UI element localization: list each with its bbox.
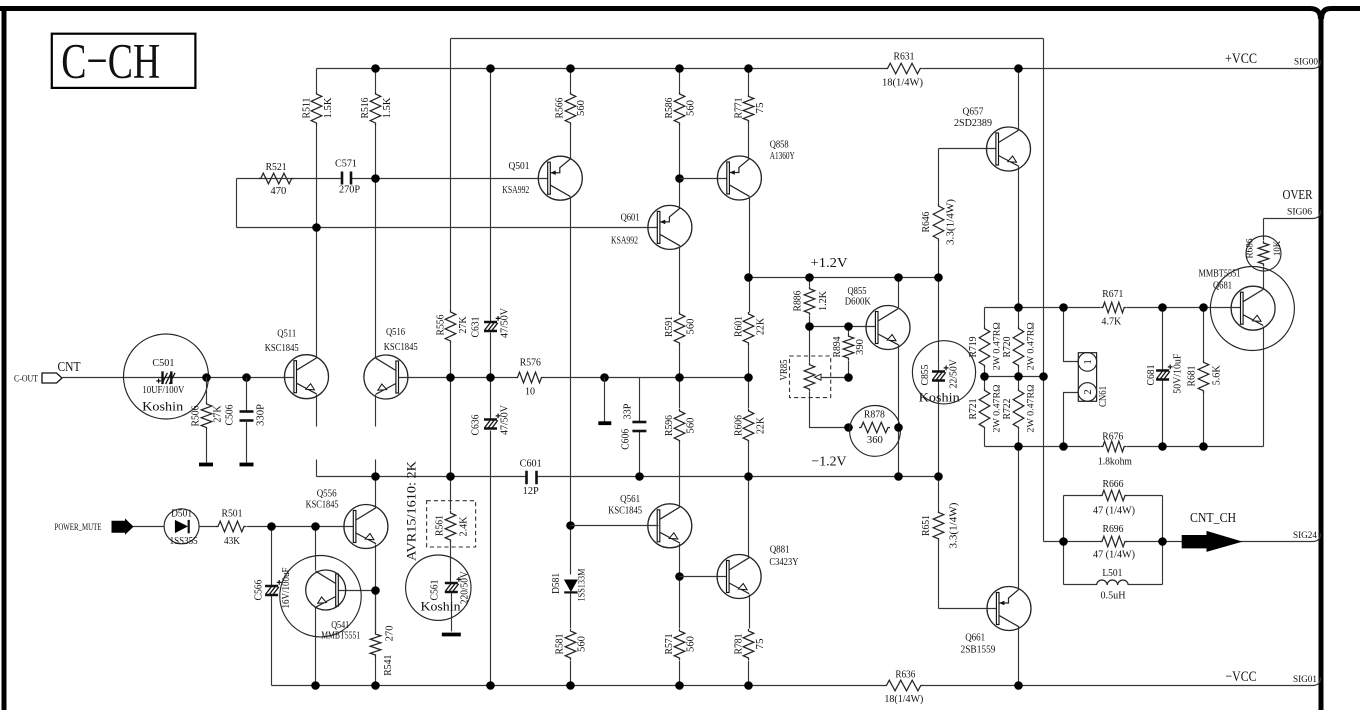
svg-text:R566: R566 bbox=[554, 98, 565, 119]
resistor R722 2W 0.47R bbox=[1013, 388, 1024, 429]
transistor Q516 KSC1845 (mirrored) bbox=[364, 355, 408, 399]
svg-text:C3423Y: C3423Y bbox=[769, 557, 798, 568]
svg-text:220/50V: 220/50V bbox=[460, 570, 471, 604]
svg-text:R596: R596 bbox=[664, 415, 675, 436]
svg-text:47 (1/4W): 47 (1/4W) bbox=[1093, 550, 1135, 561]
capacitor C636 47/50V bbox=[484, 418, 497, 421]
node: input/C506 junction bbox=[242, 373, 251, 382]
wire: VR85 to R878 wire bbox=[810, 392, 849, 428]
resistor R566 560 bbox=[565, 92, 576, 125]
connector arrow CNT_CH bbox=[1182, 532, 1241, 552]
resistor R571 560 bbox=[674, 629, 685, 660]
resistor R646 3.3(1/4W) bbox=[933, 204, 944, 241]
svg-text:1.5K: 1.5K bbox=[382, 97, 393, 119]
svg-text:10K: 10K bbox=[1273, 241, 1283, 256]
wire: Q661 base wire bbox=[939, 608, 999, 610]
svg-text:Q858: Q858 bbox=[770, 140, 789, 151]
diode D501 1SS355 (in circle) bbox=[164, 509, 199, 544]
svg-text:SIG06: SIG06 bbox=[1287, 208, 1312, 218]
node: -1.2V rail / R651 bbox=[934, 472, 943, 481]
svg-text:R671: R671 bbox=[1102, 289, 1123, 300]
svg-text:R722: R722 bbox=[1002, 399, 1013, 420]
svg-text:R681: R681 bbox=[1187, 366, 1198, 387]
svg-text:560: 560 bbox=[685, 100, 696, 116]
svg-text:CN61: CN61 bbox=[1098, 386, 1109, 407]
resistor R686 10K (in circle) bbox=[1246, 236, 1281, 271]
node: network right bbox=[1158, 537, 1167, 546]
wire: +VCC rail bbox=[317, 61, 1321, 69]
svg-text:2.4K: 2.4K bbox=[459, 516, 470, 537]
svg-text:27K: 27K bbox=[458, 316, 469, 334]
capacitor C606 33P bbox=[632, 421, 646, 424]
resistor R606 22K bbox=[743, 409, 754, 443]
svg-text:18(1/4W): 18(1/4W) bbox=[882, 78, 923, 89]
svg-text:270: 270 bbox=[385, 625, 396, 641]
svg-text:22/50V: 22/50V bbox=[948, 359, 959, 389]
svg-text:2: 2 bbox=[1082, 389, 1094, 395]
svg-text:1.8kohm: 1.8kohm bbox=[1098, 457, 1132, 468]
wire: CNT_CH output wire bbox=[1044, 541, 1064, 543]
wire: R521/C571 wire to Q501 base bbox=[237, 178, 549, 180]
wire: -VCC rail bbox=[272, 678, 1321, 686]
node: -1.2V rail / Q516-R536 column bbox=[371, 472, 380, 481]
wire: Q881 base wire bbox=[680, 576, 729, 578]
svg-text:3.3(1/4W): 3.3(1/4W) bbox=[949, 503, 960, 549]
svg-text:R586: R586 bbox=[664, 98, 675, 119]
node: R516/C571 junction bbox=[371, 174, 380, 183]
node: lower wire / CN61 pin2 branch bbox=[1059, 442, 1068, 451]
node: -1.2V rail / R606-Q881 bbox=[744, 472, 753, 481]
svg-text:+1.2V: +1.2V bbox=[811, 256, 848, 271]
wire: Q855 collector/emitter column bbox=[898, 278, 900, 477]
capacitor C601 12P bbox=[525, 471, 528, 485]
svg-text:R506: R506 bbox=[190, 406, 201, 427]
svg-text:27K: 27K bbox=[212, 405, 223, 423]
transistor Q661 2SB1559 bbox=[987, 587, 1031, 631]
svg-text:POWER_MUTE: POWER_MUTE bbox=[55, 523, 102, 533]
svg-text:Q556: Q556 bbox=[317, 489, 337, 500]
svg-text:A1360Y: A1360Y bbox=[770, 151, 795, 162]
wire: network right bracket bbox=[1162, 496, 1164, 585]
svg-text:390: 390 bbox=[855, 339, 866, 355]
resistor R596 560 bbox=[674, 409, 685, 443]
svg-text:R646: R646 bbox=[921, 212, 932, 233]
ground (C561) bbox=[442, 633, 461, 637]
svg-text:C501: C501 bbox=[152, 358, 174, 369]
svg-text:Koshin: Koshin bbox=[421, 600, 462, 614]
svg-text:R576: R576 bbox=[520, 357, 541, 368]
node: R671 / C681 bbox=[1158, 303, 1167, 312]
svg-text:33P: 33P bbox=[622, 403, 633, 419]
wire: Q541 base wire bbox=[336, 590, 376, 592]
resistor R666 47 (1/4W) bbox=[1064, 495, 1163, 497]
svg-text:0.5uH: 0.5uH bbox=[1101, 591, 1126, 602]
resistor R601 22K bbox=[743, 312, 754, 345]
svg-text:R571: R571 bbox=[664, 634, 675, 655]
svg-text:+VCC: +VCC bbox=[1225, 51, 1257, 67]
svg-text:R501: R501 bbox=[222, 509, 243, 520]
node: main wire / R601-R606 bbox=[744, 373, 753, 382]
svg-text:R886: R886 bbox=[792, 291, 803, 312]
node: R671 wire / CN61 pin1 branch bbox=[1059, 303, 1068, 312]
resistor R676 1.8kohm bbox=[1101, 441, 1126, 452]
transistor Q881 C3423Y bbox=[717, 555, 761, 599]
node: -VCC rail / Q541 emitter bbox=[311, 681, 320, 690]
svg-text:R719: R719 bbox=[968, 337, 979, 358]
wire: C681 column bbox=[1162, 308, 1164, 447]
svg-text:−1.2V: −1.2V bbox=[812, 455, 847, 470]
capacitor C571 270P bbox=[341, 172, 344, 185]
wire: -1.2V rail with C601 bbox=[317, 476, 939, 478]
resistor R501 43K bbox=[216, 521, 246, 532]
connector C-OUT bbox=[42, 373, 62, 383]
svg-text:75: 75 bbox=[755, 639, 766, 650]
connector CN61 bbox=[1078, 353, 1096, 402]
transistor Q601 KSA992 bbox=[648, 205, 692, 249]
wire: VR85 wiper wire bbox=[821, 377, 849, 379]
svg-text:R516: R516 bbox=[360, 98, 371, 119]
svg-text:C-OUT: C-OUT bbox=[14, 374, 38, 384]
svg-text:43K: 43K bbox=[224, 536, 241, 547]
resistor R586 560 bbox=[674, 92, 685, 125]
svg-text:R511: R511 bbox=[301, 98, 312, 119]
node: top rail / C631 column bbox=[486, 64, 495, 73]
node: R676 / C681 bbox=[1158, 442, 1167, 451]
wire: R586/Q601/R591/R596 column bbox=[679, 69, 681, 686]
node: R671 / R681 bbox=[1199, 303, 1208, 312]
transistor Q858 A1360Y bbox=[717, 156, 761, 200]
resistor R781 75 bbox=[743, 629, 754, 660]
resistor R576 10 bbox=[516, 372, 544, 383]
svg-text:KSC1845: KSC1845 bbox=[608, 506, 642, 517]
svg-text:R894: R894 bbox=[832, 337, 843, 358]
svg-text:12P: 12P bbox=[523, 486, 539, 497]
svg-text:R686: R686 bbox=[1245, 238, 1255, 258]
wire: R771/Q858/R601/R606/Q881 column bbox=[749, 69, 750, 686]
svg-text:L501: L501 bbox=[1102, 568, 1122, 579]
border frame top-right bbox=[1330, 6, 1360, 11]
node: network left bbox=[1059, 537, 1068, 546]
svg-text:1SS133M: 1SS133M bbox=[578, 568, 588, 601]
resistor R651 3.3(1/4W) bbox=[933, 510, 944, 540]
node: top rail / R516 bbox=[371, 64, 380, 73]
svg-text:50V/10uF: 50V/10uF bbox=[1172, 353, 1183, 393]
wire: R521 left leg bbox=[236, 179, 238, 228]
node: +1.2V rail / Q855 collector bbox=[894, 273, 903, 282]
svg-text:R606: R606 bbox=[733, 415, 744, 436]
svg-text:KSC1845: KSC1845 bbox=[306, 500, 339, 511]
capacitor C561 220/50V (Koshin) bbox=[406, 555, 471, 620]
svg-text:560: 560 bbox=[576, 100, 587, 116]
connector arrow POWER_MUTE bbox=[112, 520, 133, 534]
svg-text:D581: D581 bbox=[551, 573, 562, 594]
node: R722 bottom / lower wire bbox=[1014, 442, 1023, 451]
node: mid node R720/R722 bbox=[1014, 372, 1023, 381]
svg-text:R696: R696 bbox=[1103, 524, 1124, 535]
wire: Q541 collector/emitter column bbox=[315, 527, 317, 686]
svg-text:C636: C636 bbox=[471, 415, 482, 436]
wire: POWER_MUTE wire bbox=[133, 526, 356, 528]
svg-text:75: 75 bbox=[755, 103, 766, 114]
svg-text:1.5K: 1.5K bbox=[323, 97, 334, 119]
wire: main input wire CNT bbox=[63, 377, 295, 379]
node: R894/VR85 wiper junction bbox=[844, 373, 853, 382]
svg-text:R878: R878 bbox=[864, 409, 885, 420]
svg-text:22K: 22K bbox=[755, 317, 766, 335]
svg-text:R601: R601 bbox=[733, 316, 744, 337]
svg-text:Q601: Q601 bbox=[621, 212, 640, 223]
svg-text:C506: C506 bbox=[224, 405, 235, 426]
svg-text:47/50V: 47/50V bbox=[499, 404, 510, 435]
svg-text:Koshin: Koshin bbox=[919, 390, 961, 404]
wire: R511 column bbox=[316, 69, 318, 229]
capacitor C855 22/50V (Koshin) bbox=[912, 341, 975, 404]
node: top rail / R586 bbox=[675, 64, 684, 73]
resistor R719 2W 0.47R bbox=[979, 327, 990, 368]
svg-text:R720: R720 bbox=[1002, 337, 1013, 358]
svg-text:R591: R591 bbox=[664, 316, 675, 337]
svg-text:Q561: Q561 bbox=[620, 494, 640, 505]
svg-text:R556: R556 bbox=[435, 315, 446, 336]
node: -VCC rail / R541 bbox=[371, 681, 380, 690]
svg-text:560: 560 bbox=[685, 418, 696, 434]
resistor R696 47 (1/4W) bbox=[1064, 541, 1163, 543]
node: main wire / R556-Q516 base bbox=[446, 373, 455, 382]
svg-text:470: 470 bbox=[270, 186, 286, 197]
node: +1.2V rail / R886 bbox=[805, 273, 814, 282]
svg-text:KSC1845: KSC1845 bbox=[384, 342, 418, 353]
svg-text:R651: R651 bbox=[921, 515, 932, 536]
node: Q657 emitter / R720 top bbox=[1014, 303, 1023, 312]
wire: R516 column bbox=[375, 69, 377, 358]
node: Q855 base / R886 junction bbox=[805, 322, 814, 331]
svg-text:R561: R561 bbox=[434, 515, 445, 536]
diode D581 1SS133M bbox=[564, 580, 578, 593]
node: -1.2V rail / R561 column bbox=[446, 472, 455, 481]
svg-text:R521: R521 bbox=[266, 162, 287, 173]
svg-text:C566: C566 bbox=[253, 580, 264, 601]
node: -VCC rail / C636 column bbox=[486, 681, 495, 690]
svg-text:C−CH: C−CH bbox=[61, 33, 160, 89]
resistor R681 5.6K bbox=[1198, 360, 1209, 393]
transistor Q855 D600K bbox=[866, 306, 910, 350]
wire: R566/Q501 collector column bbox=[570, 69, 572, 686]
wire: R686/Q681 column bbox=[1263, 219, 1265, 447]
wire: Q511 collector/emitter column bbox=[316, 228, 318, 477]
svg-text:R631: R631 bbox=[894, 52, 915, 63]
svg-text:SIG24: SIG24 bbox=[1293, 531, 1317, 541]
wire: Q855 base wire bbox=[810, 326, 877, 328]
node: Q541 base / R541 top bbox=[371, 586, 380, 595]
svg-text:Q681: Q681 bbox=[1213, 281, 1232, 292]
svg-text:4.7K: 4.7K bbox=[1101, 317, 1122, 328]
resistor R721 2W 0.47R bbox=[979, 388, 990, 429]
resistor R878 360 (in circle) bbox=[850, 406, 901, 457]
svg-text:2SB1559: 2SB1559 bbox=[961, 645, 996, 656]
transistor Q556 KSC1845 bbox=[344, 505, 388, 549]
wire: main wire second stage bbox=[399, 377, 751, 379]
node: Q855 base / R894 junction bbox=[844, 322, 853, 331]
node: R676 / R681 bbox=[1199, 442, 1208, 451]
svg-text:1: 1 bbox=[1082, 359, 1094, 365]
svg-text:1SS355: 1SS355 bbox=[170, 536, 198, 547]
wire: R671 wire (driver bias to Q681 base) bbox=[985, 307, 1243, 309]
svg-text:5.6K: 5.6K bbox=[1212, 365, 1223, 386]
node: -VCC rail / R581 bbox=[566, 681, 575, 690]
capacitor C506 bbox=[246, 378, 248, 411]
svg-text:Q516: Q516 bbox=[386, 327, 405, 338]
node: -VCC rail / R781 bbox=[744, 681, 753, 690]
svg-text:VR85: VR85 bbox=[779, 360, 790, 381]
svg-text:KSA992: KSA992 bbox=[502, 185, 529, 196]
svg-text:MMBT5551: MMBT5551 bbox=[1199, 268, 1241, 279]
capacitor C566 16V/100uF bbox=[265, 585, 278, 588]
wire: C566 column bbox=[271, 527, 273, 686]
wire: network left bracket bbox=[1063, 496, 1065, 585]
ground stub (mid supply) bbox=[604, 378, 606, 422]
node: main wire / C631-C636 column bbox=[486, 373, 495, 382]
svg-text:22K: 22K bbox=[755, 416, 766, 434]
node: R501 / Q541 collector bbox=[311, 522, 320, 531]
svg-text:560: 560 bbox=[576, 636, 587, 652]
wire: R719/R721 column bbox=[984, 308, 986, 447]
svg-text:Q881: Q881 bbox=[770, 545, 790, 556]
wire: Q657 base wire bbox=[939, 148, 998, 150]
transistor Q681 MMBT5551 (outer circle) bbox=[1210, 267, 1294, 351]
svg-text:D501: D501 bbox=[171, 509, 192, 520]
node: R878/Q855 emitter junction bbox=[894, 423, 903, 432]
svg-text:10: 10 bbox=[525, 387, 535, 398]
node: main wire / ground stub bbox=[600, 373, 609, 382]
potentiometer VR85 (dashed box) bbox=[790, 356, 831, 398]
resistor R516 1.5K bbox=[370, 92, 381, 125]
wire: Q858 base wire bbox=[680, 178, 727, 180]
capacitor C501 (Koshin) bbox=[124, 334, 209, 419]
wire: R541 column bbox=[375, 591, 377, 633]
svg-text:1.2K: 1.2K bbox=[818, 290, 829, 311]
border frame top-left bbox=[0, 6, 1311, 11]
transistor Q511 KSC1845 bbox=[285, 355, 329, 399]
wire: Q516 emitter / Q556 column bbox=[375, 395, 377, 686]
title box C-CH bbox=[52, 34, 196, 88]
svg-text:C681: C681 bbox=[1146, 365, 1157, 386]
resistor R541 270 bbox=[370, 632, 381, 657]
resistor R894 390 bbox=[843, 334, 854, 360]
node: mid node R719/R721 bbox=[980, 372, 989, 381]
svg-text:CNT_CH: CNT_CH bbox=[1190, 510, 1236, 525]
wire: Q657 emitter / R720/R722 / Q661 column bbox=[1018, 69, 1020, 686]
wire: CN61 pin wires bbox=[1064, 308, 1079, 362]
transistor Q657 2SD2389 bbox=[987, 127, 1031, 171]
wire: OVER / SIG06 wire bbox=[1264, 211, 1321, 219]
svg-text:KSC1845: KSC1845 bbox=[265, 343, 299, 354]
svg-text:R781: R781 bbox=[733, 634, 744, 655]
resistor R636 18(1/4W) bbox=[884, 680, 922, 691]
svg-text:Q855: Q855 bbox=[848, 286, 867, 297]
resistor R506 bbox=[206, 378, 208, 403]
wire: R886/VR85 column bbox=[809, 278, 811, 363]
svg-text:360: 360 bbox=[867, 435, 883, 446]
wire: feedback column R556/R561 bbox=[451, 39, 452, 632]
wire: R646/C855/R651 column bbox=[938, 149, 940, 609]
svg-text:330P: 330P bbox=[255, 404, 266, 426]
svg-text:C855: C855 bbox=[920, 365, 931, 386]
svg-text:Q661: Q661 bbox=[965, 632, 985, 643]
wire: Q601 base wire bbox=[237, 227, 659, 229]
node: main wire / R591-R596 bbox=[675, 373, 684, 382]
svg-text:C571: C571 bbox=[335, 159, 357, 170]
node: Q881 base / R571 top bbox=[675, 572, 684, 581]
svg-text:MMBT5551: MMBT5551 bbox=[321, 630, 360, 641]
svg-text:SIG01: SIG01 bbox=[1293, 675, 1317, 685]
svg-text:−VCC: −VCC bbox=[1226, 669, 1257, 685]
svg-text:CNT: CNT bbox=[58, 359, 82, 374]
svg-text:C561: C561 bbox=[430, 580, 441, 601]
svg-text:KSA992: KSA992 bbox=[611, 236, 638, 247]
svg-text:R771: R771 bbox=[733, 98, 744, 119]
node: top rail / Q657 collector bbox=[1014, 64, 1023, 73]
resistor R556 27K bbox=[445, 310, 456, 343]
svg-text:Q501: Q501 bbox=[509, 161, 530, 172]
svg-text:560: 560 bbox=[685, 636, 696, 652]
inductor L501 0.5uH bbox=[1064, 584, 1163, 586]
svg-text:2W 0.47RΩ: 2W 0.47RΩ bbox=[1027, 322, 1037, 370]
resistor R521 470 bbox=[259, 173, 294, 184]
svg-text:C606: C606 bbox=[620, 429, 631, 450]
node: input/R506 junction bbox=[202, 373, 211, 382]
svg-text:47 (1/4W): 47 (1/4W) bbox=[1093, 506, 1135, 517]
ground (R506) bbox=[199, 463, 213, 467]
resistor R720 2W 0.47R bbox=[1013, 327, 1024, 368]
wire: C606 column bbox=[639, 378, 641, 477]
transistor Q501 KSA992 bbox=[538, 156, 582, 200]
svg-text:R666: R666 bbox=[1103, 479, 1124, 490]
svg-text:2SD2389: 2SD2389 bbox=[954, 118, 992, 129]
svg-text:Koshin: Koshin bbox=[142, 399, 184, 414]
node: +1.2V rail / R646-C855 bbox=[934, 273, 943, 282]
wire: C631/C636 column bbox=[490, 69, 492, 686]
svg-text:Q657: Q657 bbox=[963, 107, 984, 118]
wire: R676 wire (bias lower) bbox=[985, 446, 1264, 448]
svg-text:2W 0.47RΩ: 2W 0.47RΩ bbox=[1027, 385, 1037, 433]
resistor R561 2.4K (dashed box) bbox=[427, 501, 476, 547]
svg-text:D600K: D600K bbox=[845, 296, 872, 307]
node: mid node / output column bbox=[1039, 372, 1048, 381]
resistor R771 75 bbox=[743, 95, 754, 123]
svg-text:3.3(1/4W): 3.3(1/4W) bbox=[946, 199, 957, 245]
wire: R681 column bbox=[1203, 308, 1205, 447]
svg-text:270P: 270P bbox=[339, 184, 360, 195]
svg-text:R721: R721 bbox=[968, 399, 979, 420]
capacitor C631 47/50V bbox=[484, 321, 497, 324]
svg-text:R581: R581 bbox=[554, 634, 565, 655]
svg-text:AVR15/1610: 2K: AVR15/1610: 2K bbox=[405, 461, 419, 561]
wire: R894 column bbox=[848, 327, 850, 378]
svg-text:Q511: Q511 bbox=[277, 329, 296, 340]
node: VR85/R878 left junction bbox=[844, 423, 853, 432]
node: Q661 emitter / -VCC rail bbox=[1014, 681, 1023, 690]
wire: inner feedback top wire bbox=[451, 38, 1044, 40]
resistor R511 1.5K bbox=[311, 92, 322, 125]
svg-text:R541: R541 bbox=[383, 655, 394, 676]
node: -1.2V rail / Q855 emitter bbox=[894, 472, 903, 481]
ground (C506) bbox=[240, 463, 254, 467]
resistor R591 560 bbox=[674, 312, 685, 345]
node: -1.2V rail / C606 bbox=[635, 472, 644, 481]
wire: feedback/output column bbox=[1043, 39, 1045, 542]
svg-text:C601: C601 bbox=[520, 459, 542, 470]
node: Q601 base / R511 column junction bbox=[312, 223, 321, 232]
